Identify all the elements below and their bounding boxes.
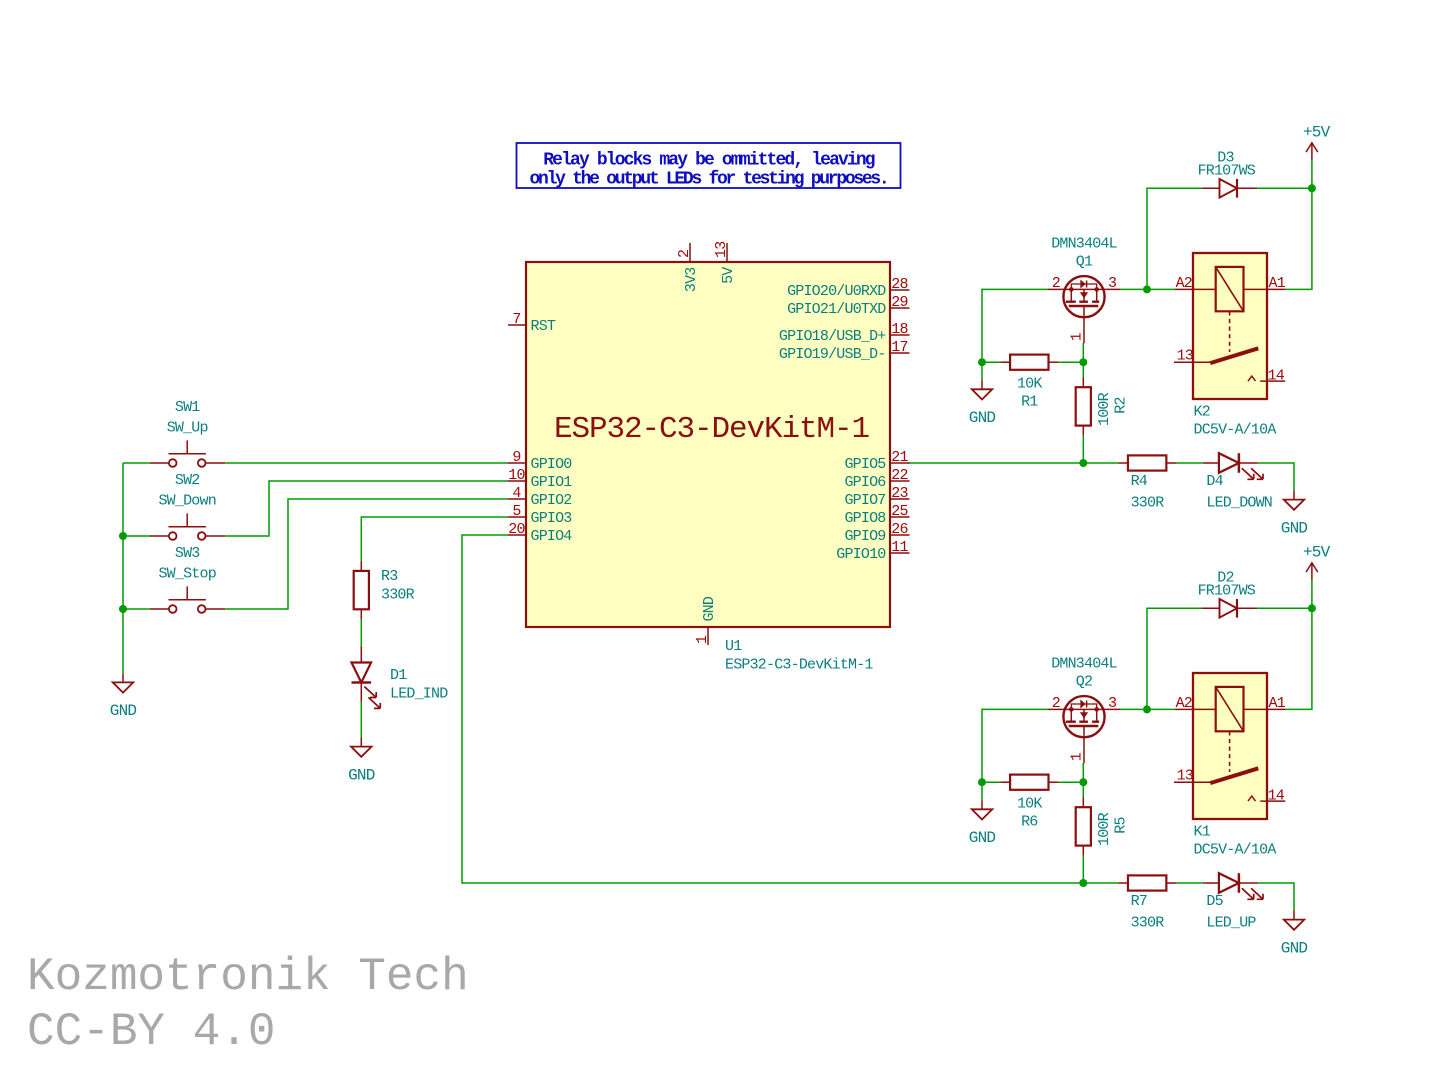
- svg-text:DMN3404L: DMN3404L: [1051, 656, 1117, 673]
- svg-text:GPIO1: GPIO1: [531, 474, 573, 491]
- svg-text:GND: GND: [969, 409, 996, 427]
- svg-text:GPIO10: GPIO10: [836, 546, 886, 563]
- svg-text:R2: R2: [1113, 397, 1130, 413]
- svg-text:A2: A2: [1176, 275, 1192, 292]
- svg-text:FR107WS: FR107WS: [1198, 583, 1256, 600]
- svg-text:R1: R1: [1021, 394, 1038, 411]
- svg-text:29: 29: [891, 294, 907, 311]
- svg-text:+5V: +5V: [1303, 124, 1331, 142]
- svg-text:10K: 10K: [1017, 796, 1042, 813]
- svg-text:+5V: +5V: [1303, 544, 1331, 562]
- svg-text:LED_UP: LED_UP: [1206, 915, 1256, 932]
- svg-text:CC-BY 4.0: CC-BY 4.0: [27, 1006, 275, 1058]
- svg-text:20: 20: [508, 521, 525, 538]
- svg-text:SW3: SW3: [175, 545, 200, 562]
- svg-text:A2: A2: [1176, 695, 1192, 712]
- svg-text:ESP32-C3-DevKitM-1: ESP32-C3-DevKitM-1: [554, 412, 870, 447]
- svg-text:D1: D1: [390, 667, 407, 684]
- svg-text:GND: GND: [1281, 519, 1308, 537]
- svg-text:K1: K1: [1194, 824, 1211, 841]
- svg-text:5: 5: [512, 503, 521, 520]
- svg-text:R3: R3: [381, 568, 398, 585]
- svg-text:10: 10: [508, 467, 525, 484]
- svg-text:9: 9: [512, 449, 520, 466]
- svg-text:100R: 100R: [1096, 812, 1113, 846]
- svg-text:GND: GND: [348, 766, 375, 784]
- svg-text:100R: 100R: [1096, 392, 1113, 426]
- svg-text:DC5V-A/10A: DC5V-A/10A: [1194, 422, 1277, 439]
- svg-text:FR107WS: FR107WS: [1198, 163, 1256, 180]
- svg-text:GPIO5: GPIO5: [844, 456, 886, 473]
- svg-text:DC5V-A/10A: DC5V-A/10A: [1194, 842, 1277, 859]
- svg-text:A1: A1: [1269, 275, 1286, 292]
- svg-text:GND: GND: [701, 596, 718, 621]
- svg-text:4: 4: [512, 485, 521, 502]
- svg-text:RST: RST: [531, 318, 556, 335]
- svg-text:D5: D5: [1206, 893, 1223, 910]
- svg-text:Kozmotronik Tech: Kozmotronik Tech: [27, 951, 469, 1003]
- svg-text:SW_Down: SW_Down: [158, 493, 215, 510]
- svg-text:GPIO2: GPIO2: [531, 492, 572, 509]
- svg-text:330R: 330R: [381, 587, 415, 604]
- svg-text:SW_Up: SW_Up: [167, 420, 208, 437]
- svg-text:ESP32-C3-DevKitM-1: ESP32-C3-DevKitM-1: [725, 657, 873, 674]
- svg-text:7: 7: [512, 311, 520, 328]
- svg-text:D4: D4: [1206, 473, 1223, 490]
- svg-text:Q2: Q2: [1076, 674, 1092, 691]
- svg-text:1: 1: [694, 635, 711, 644]
- svg-text:13: 13: [1177, 768, 1194, 785]
- svg-text:21: 21: [891, 449, 908, 466]
- svg-text:11: 11: [891, 539, 908, 556]
- svg-text:Relay blocks may be ommitted,: Relay blocks may be ommitted, leaving: [543, 150, 875, 170]
- svg-text:3: 3: [1108, 695, 1117, 712]
- svg-text:14: 14: [1268, 368, 1285, 385]
- svg-text:Q1: Q1: [1076, 254, 1093, 271]
- svg-text:1: 1: [1069, 332, 1086, 341]
- svg-text:2: 2: [1052, 695, 1060, 712]
- svg-text:LED_DOWN: LED_DOWN: [1206, 495, 1272, 512]
- svg-text:22: 22: [891, 467, 907, 484]
- svg-text:SW1: SW1: [175, 399, 200, 416]
- svg-text:GPIO9: GPIO9: [844, 528, 885, 545]
- svg-text:DMN3404L: DMN3404L: [1051, 236, 1117, 253]
- svg-text:GND: GND: [110, 702, 137, 720]
- svg-text:14: 14: [1268, 788, 1285, 805]
- svg-text:GPIO4: GPIO4: [531, 528, 573, 545]
- svg-text:1: 1: [1069, 752, 1086, 761]
- svg-text:330R: 330R: [1131, 915, 1165, 932]
- svg-text:GND: GND: [1281, 939, 1308, 957]
- svg-text:GPIO0: GPIO0: [531, 456, 573, 473]
- svg-text:U1: U1: [725, 638, 742, 655]
- svg-text:17: 17: [891, 339, 907, 356]
- svg-text:10K: 10K: [1017, 376, 1042, 393]
- svg-text:R4: R4: [1131, 473, 1148, 490]
- svg-text:only the output LEDs for testi: only the output LEDs for testing purpose…: [530, 170, 888, 190]
- svg-text:R5: R5: [1113, 816, 1130, 833]
- svg-text:GPIO20/U0RXD: GPIO20/U0RXD: [787, 283, 886, 300]
- svg-text:GPIO18/USB_D+: GPIO18/USB_D+: [779, 328, 886, 345]
- svg-text:SW_Stop: SW_Stop: [158, 566, 215, 583]
- svg-text:GPIO3: GPIO3: [531, 510, 573, 527]
- svg-text:25: 25: [891, 503, 908, 520]
- svg-text:3: 3: [1108, 275, 1117, 292]
- svg-text:5V: 5V: [720, 267, 737, 284]
- svg-text:SW2: SW2: [175, 472, 200, 489]
- svg-text:GPIO19/USB_D-: GPIO19/USB_D-: [779, 346, 886, 363]
- svg-text:13: 13: [1177, 348, 1194, 365]
- svg-text:R6: R6: [1021, 814, 1038, 831]
- svg-text:GPIO6: GPIO6: [844, 474, 886, 491]
- svg-text:13: 13: [713, 241, 730, 258]
- svg-text:GPIO8: GPIO8: [844, 510, 886, 527]
- svg-text:330R: 330R: [1131, 495, 1165, 512]
- svg-text:3V3: 3V3: [683, 267, 700, 292]
- svg-text:2: 2: [1052, 275, 1060, 292]
- svg-text:18: 18: [891, 321, 908, 338]
- svg-text:23: 23: [891, 485, 908, 502]
- svg-text:LED_IND: LED_IND: [390, 686, 448, 703]
- svg-text:GND: GND: [969, 829, 996, 847]
- svg-text:GPIO7: GPIO7: [844, 492, 885, 509]
- svg-text:26: 26: [891, 521, 908, 538]
- svg-text:2: 2: [676, 250, 693, 258]
- svg-text:28: 28: [891, 276, 908, 293]
- svg-text:R7: R7: [1131, 893, 1147, 910]
- svg-text:GPIO21/U0TXD: GPIO21/U0TXD: [787, 301, 886, 318]
- svg-text:K2: K2: [1194, 404, 1210, 421]
- svg-text:A1: A1: [1269, 695, 1286, 712]
